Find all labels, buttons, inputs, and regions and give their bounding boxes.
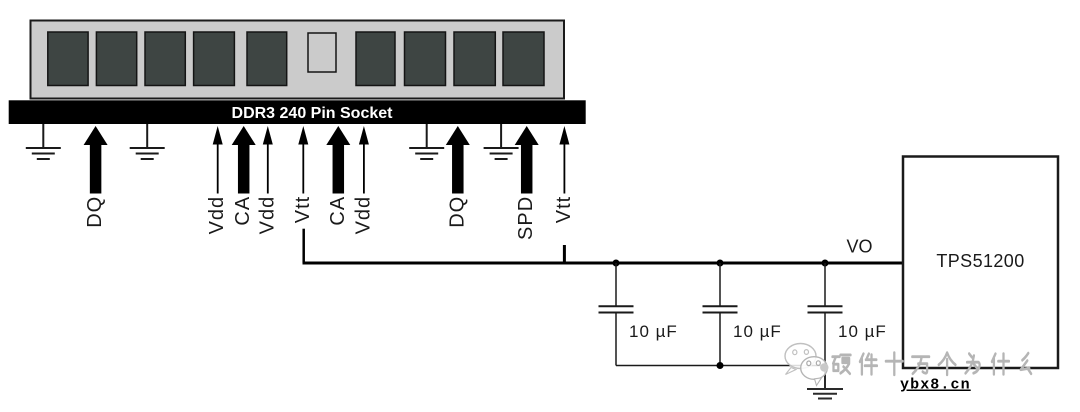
svg-text:SPD: SPD [515, 196, 537, 240]
svg-text:10 µF: 10 µF [838, 322, 887, 341]
svg-text:10 µF: 10 µF [733, 322, 782, 341]
svg-text:CA: CA [327, 196, 349, 226]
svg-text:VO: VO [847, 237, 873, 257]
svg-text:DDR3 240 Pin Socket: DDR3 240 Pin Socket [232, 105, 394, 122]
svg-text:Vdd: Vdd [352, 196, 374, 235]
svg-text:Vtt: Vtt [292, 196, 314, 223]
svg-text:TPS51200: TPS51200 [936, 251, 1024, 271]
svg-text:Vtt: Vtt [553, 196, 575, 223]
svg-text:Vdd: Vdd [206, 196, 228, 235]
svg-text:DQ: DQ [84, 196, 106, 228]
svg-text:DQ: DQ [446, 196, 468, 228]
svg-text:ybx8.cn: ybx8.cn [900, 377, 971, 394]
svg-text:CA: CA [232, 196, 254, 226]
svg-text:Vdd: Vdd [256, 196, 278, 235]
svg-text:10 µF: 10 µF [629, 322, 678, 341]
